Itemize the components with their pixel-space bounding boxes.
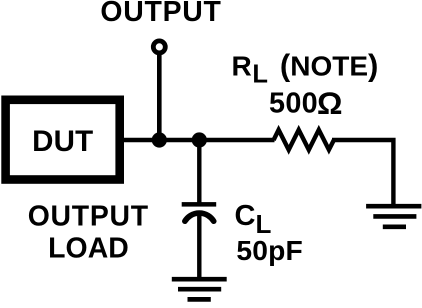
- svg-text:50pF: 50pF: [236, 234, 303, 266]
- DUT box: [6, 100, 120, 180]
- svg-text:Ω: Ω: [317, 85, 343, 121]
- wire: DUT output to resistor (main horizontal): [122, 138, 275, 142]
- svg-text:DUT: DUT: [32, 125, 93, 158]
- ground (right, below RL): [366, 204, 421, 209]
- wire: resistor to right corner and down: [332, 140, 393, 206]
- svg-text:LOAD: LOAD: [48, 233, 129, 265]
- svg-text:500: 500: [269, 87, 318, 119]
- resistor RL zigzag: [274, 130, 334, 150]
- capacitor CL top plate: [182, 202, 217, 207]
- wire: node B down to capacitor: [197, 140, 201, 204]
- svg-text:OUTPUT: OUTPUT: [28, 200, 149, 232]
- node B junction dot (capacitor tap): [192, 132, 207, 147]
- capacitor CL bottom curved plate: [185, 213, 214, 221]
- ground (below CL): [172, 277, 227, 282]
- svg-text:OUTPUT: OUTPUT: [100, 0, 221, 28]
- output terminal (open circle): [153, 41, 165, 53]
- node A junction dot (output tap): [152, 132, 167, 147]
- wire: capacitor to ground: [197, 213, 201, 279]
- wire: terminal to junction A: [157, 53, 162, 140]
